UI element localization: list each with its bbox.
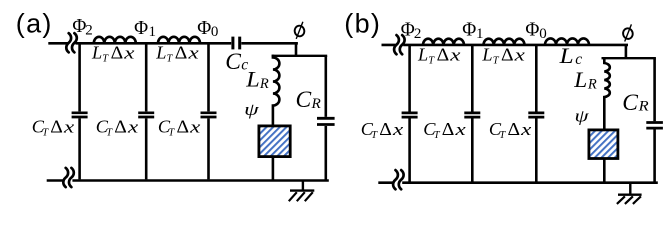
svg-text:T: T bbox=[493, 55, 500, 66]
wire: resonator top bar b bbox=[602, 57, 656, 59]
svg-text:ψ: ψ bbox=[575, 107, 590, 126]
svg-text:L: L bbox=[481, 45, 492, 65]
svg-text:x: x bbox=[520, 120, 532, 139]
svg-text:T: T bbox=[428, 55, 435, 66]
svg-text:Φ: Φ bbox=[134, 17, 148, 39]
svg-text:1: 1 bbox=[476, 26, 484, 42]
svg-text:L: L bbox=[245, 67, 260, 92]
svg-text:x: x bbox=[63, 118, 75, 137]
svg-text:1: 1 bbox=[149, 24, 157, 40]
svg-text:Δ: Δ bbox=[501, 45, 514, 65]
svg-text:L: L bbox=[91, 43, 102, 63]
capacitor CTdx 1 a bbox=[78, 44, 81, 179]
svg-text:x: x bbox=[187, 44, 199, 63]
svg-text:T: T bbox=[42, 127, 49, 138]
inductor LTdx 2 b bbox=[484, 39, 525, 45]
ground b bbox=[618, 183, 642, 195]
svg-text:x: x bbox=[454, 120, 466, 139]
inductor Lc b bbox=[545, 38, 589, 44]
svg-text:Δ: Δ bbox=[508, 119, 521, 139]
svg-text:Δ: Δ bbox=[177, 117, 190, 137]
wire: box to rail a bbox=[272, 158, 275, 181]
capacitor CTdx 3 a bbox=[207, 44, 210, 179]
svg-text:T: T bbox=[106, 127, 113, 138]
inductor LTdx 2 a bbox=[158, 37, 200, 44]
svg-text:C: C bbox=[225, 49, 241, 75]
break symbol top-left a bbox=[66, 33, 77, 52]
wire: panel a bottom rail bbox=[47, 179, 329, 182]
capacitor Cc a bbox=[233, 37, 240, 50]
svg-text:2: 2 bbox=[414, 26, 422, 42]
wire: phi drop b bbox=[625, 44, 628, 58]
break symbol top-left b bbox=[394, 35, 405, 54]
svg-text:R: R bbox=[587, 77, 597, 93]
svg-text:T: T bbox=[499, 130, 506, 141]
svg-text:T: T bbox=[434, 130, 441, 141]
svg-text:Δ: Δ bbox=[379, 119, 392, 139]
inductor LR b bbox=[604, 57, 610, 129]
svg-text:Φ: Φ bbox=[462, 19, 476, 41]
svg-text:(b): (b) bbox=[344, 9, 381, 39]
ground a bbox=[290, 181, 314, 191]
break symbol bottom-left b bbox=[393, 170, 404, 189]
inductor LTdx 1 a bbox=[94, 37, 136, 44]
svg-text:x: x bbox=[392, 120, 404, 139]
inductor LR a bbox=[273, 55, 280, 125]
svg-text:Φ: Φ bbox=[197, 17, 211, 39]
wire: panel a top rail bbox=[48, 42, 298, 45]
qubit box b bbox=[589, 130, 618, 159]
svg-text:x: x bbox=[189, 118, 201, 137]
capacitor CR a bbox=[324, 56, 327, 181]
qubit box a bbox=[259, 126, 290, 157]
svg-text:Φ: Φ bbox=[72, 15, 86, 37]
svg-text:x: x bbox=[449, 46, 461, 65]
wire: phi drop a bbox=[295, 42, 298, 56]
svg-text:0: 0 bbox=[211, 24, 219, 40]
wire: box to rail b bbox=[603, 160, 606, 183]
svg-text:T: T bbox=[371, 130, 378, 141]
svg-text:Δ: Δ bbox=[114, 117, 127, 137]
svg-text:T: T bbox=[168, 127, 175, 138]
svg-text:x: x bbox=[513, 46, 525, 65]
node phi a bbox=[294, 22, 306, 39]
svg-text:L: L bbox=[573, 67, 587, 92]
svg-text:ψ: ψ bbox=[244, 100, 259, 119]
svg-text:R: R bbox=[638, 99, 649, 115]
capacitor CR b bbox=[653, 58, 656, 183]
inductor LTdx 1 b bbox=[423, 39, 464, 45]
svg-text:2: 2 bbox=[85, 23, 93, 39]
svg-text:x: x bbox=[123, 44, 135, 63]
svg-text:c: c bbox=[575, 51, 582, 68]
svg-text:C: C bbox=[622, 90, 638, 116]
wire: panel b bottom rail bbox=[378, 181, 658, 184]
capacitor CTdx 1 b bbox=[408, 46, 411, 182]
capacitor CTdx 2 a bbox=[145, 44, 148, 179]
svg-text:Φ: Φ bbox=[401, 19, 415, 41]
svg-text:C: C bbox=[296, 87, 312, 113]
svg-text:Δ: Δ bbox=[50, 117, 63, 137]
svg-text:Δ: Δ bbox=[442, 119, 455, 139]
svg-text:T: T bbox=[102, 54, 109, 65]
svg-text:Δ: Δ bbox=[175, 43, 188, 63]
node phi b bbox=[622, 24, 634, 41]
svg-text:R: R bbox=[310, 96, 320, 112]
capacitor CTdx 2 b bbox=[471, 46, 474, 182]
svg-text:T: T bbox=[167, 54, 174, 65]
svg-text:Φ: Φ bbox=[525, 19, 539, 41]
svg-text:x: x bbox=[127, 118, 139, 137]
svg-text:L: L bbox=[558, 43, 573, 68]
wire: panel b top rail bbox=[382, 44, 629, 47]
svg-text:R: R bbox=[259, 76, 269, 92]
svg-text:Δ: Δ bbox=[111, 43, 124, 63]
capacitor CTdx 3 b bbox=[535, 46, 538, 182]
svg-text:Δ: Δ bbox=[437, 45, 450, 65]
wire: resonator top bar a bbox=[272, 55, 328, 57]
svg-text:L: L bbox=[417, 45, 428, 65]
break symbol bottom-left a bbox=[63, 168, 74, 187]
svg-text:(a): (a) bbox=[16, 9, 53, 39]
svg-text:L: L bbox=[155, 43, 166, 63]
